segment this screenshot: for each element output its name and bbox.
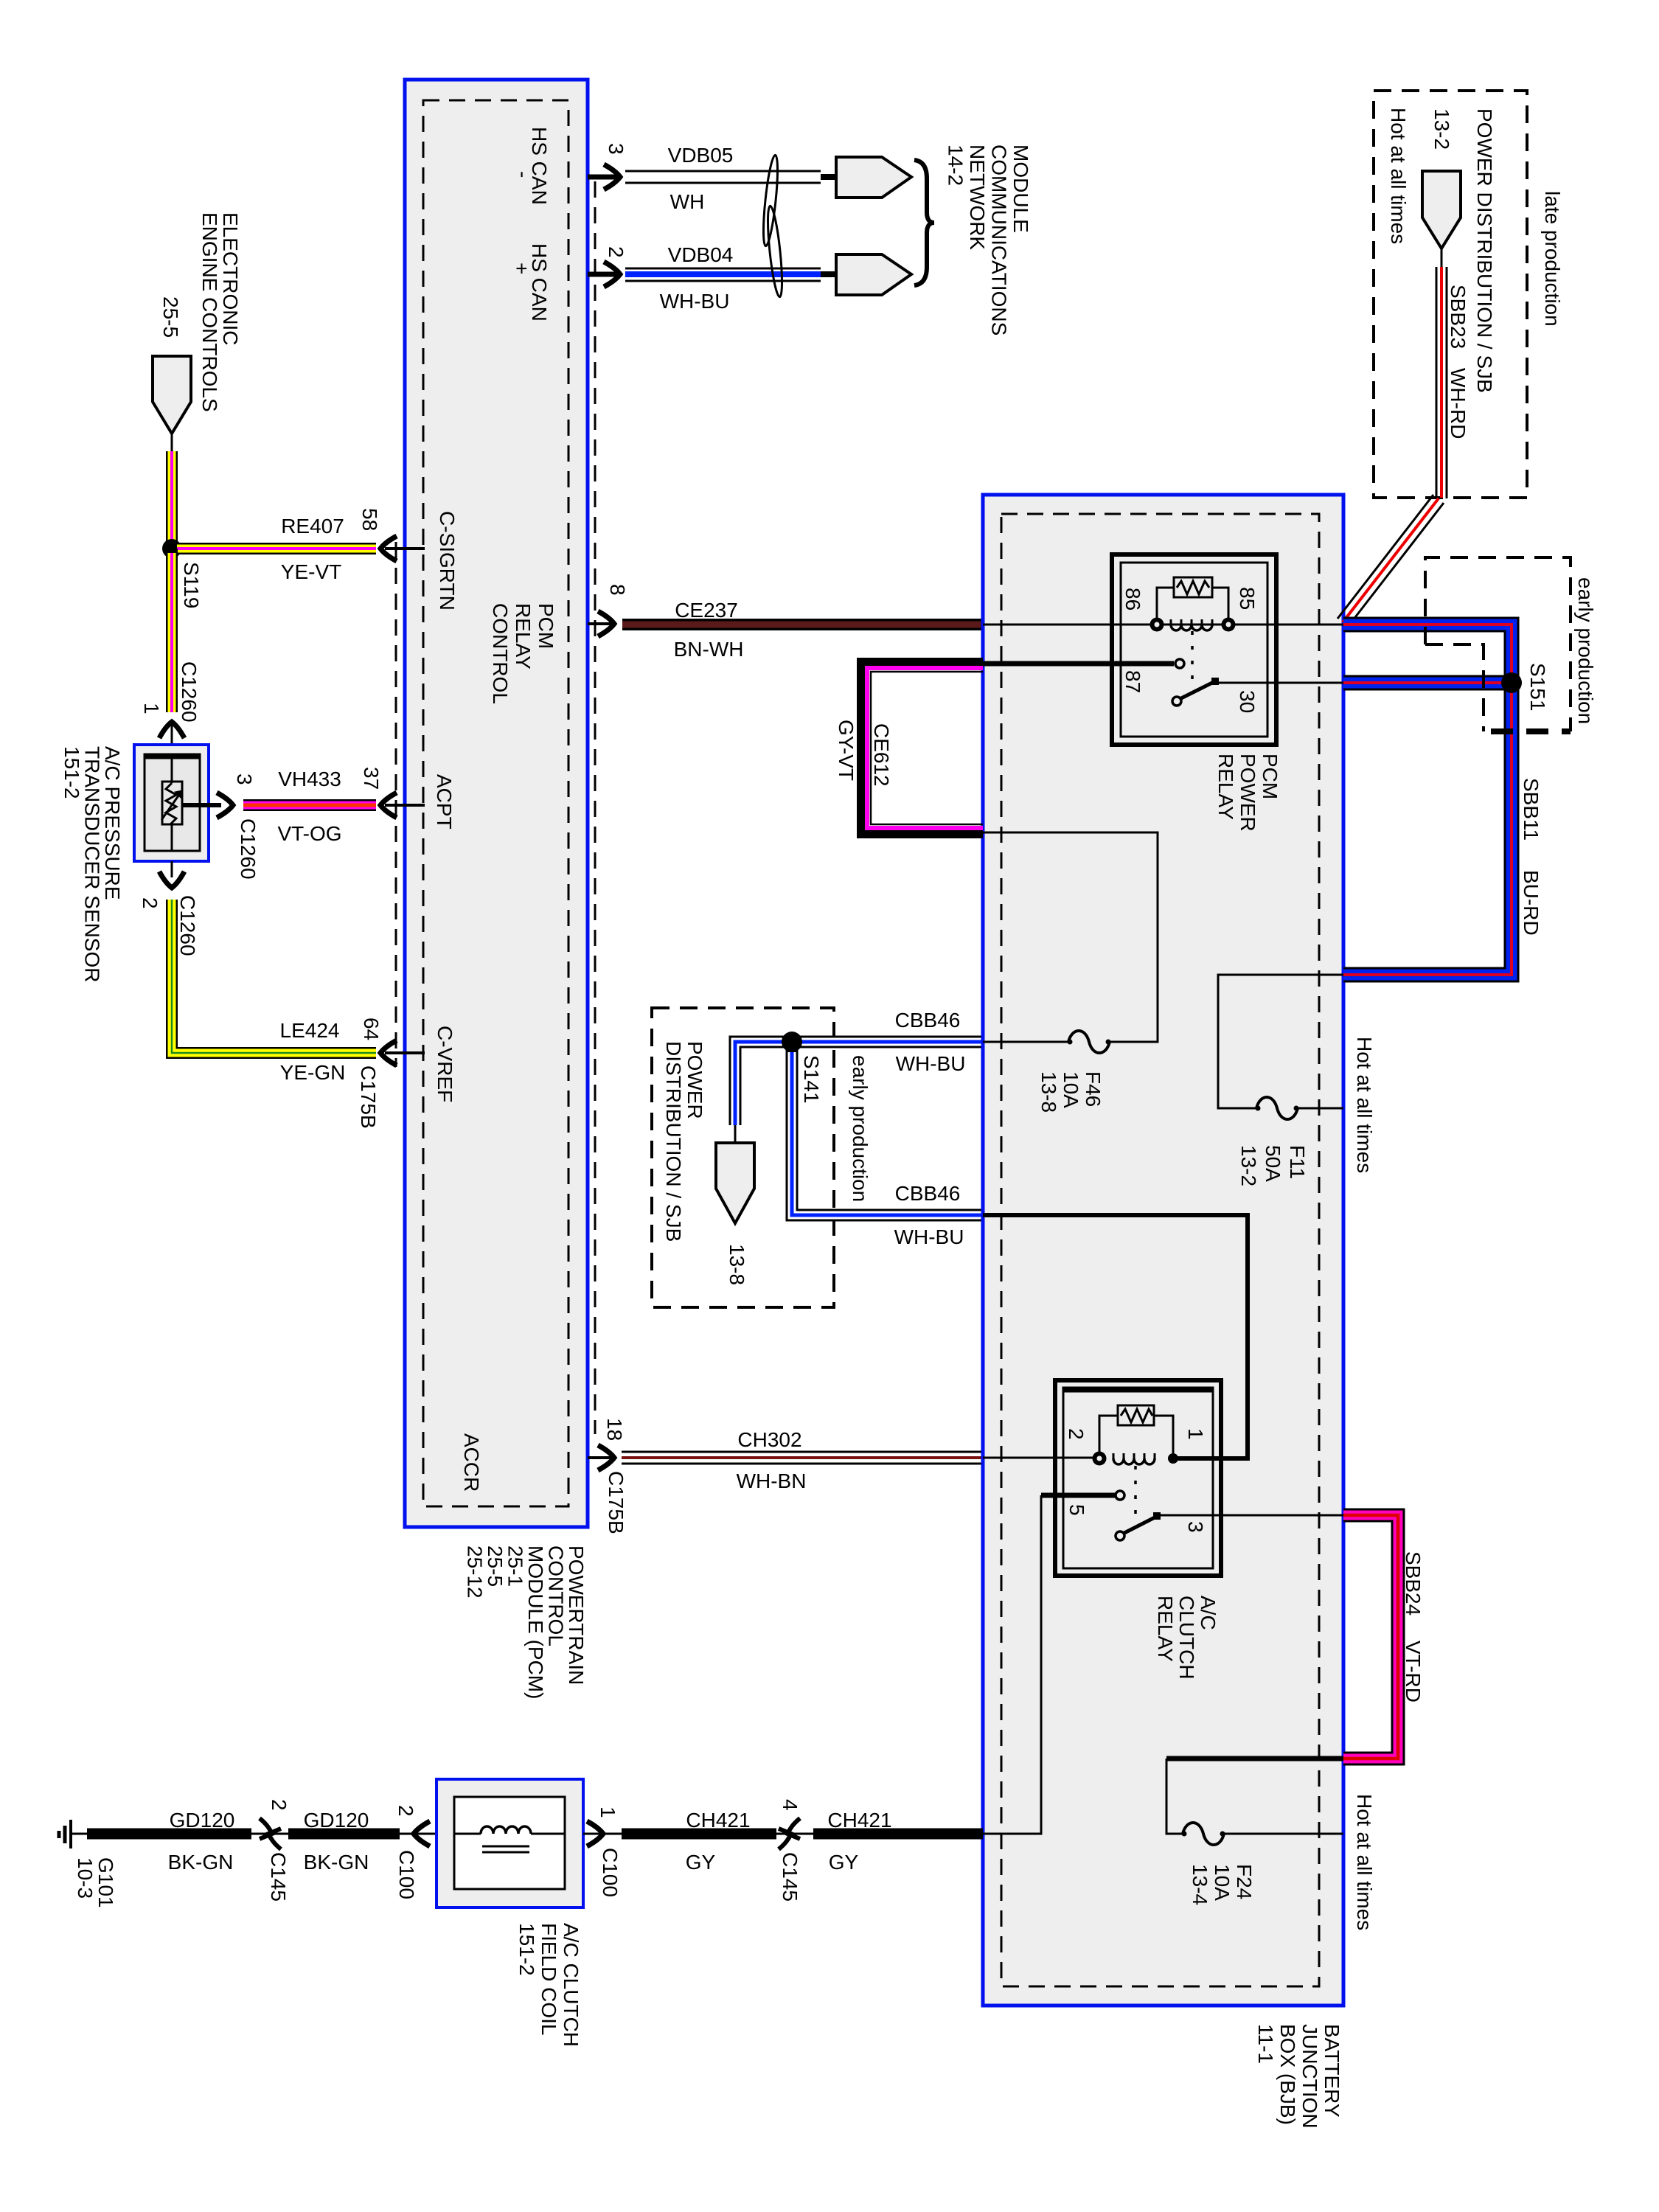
relay switch blade <box>1172 697 1181 706</box>
svg-text:2: 2 <box>1065 1428 1088 1440</box>
wire LE424 YE-GN vertical <box>172 900 376 1053</box>
BJB inner dashed boundary <box>1001 514 1319 1986</box>
svg-text:SBB23: SBB23 <box>1447 285 1470 349</box>
A/C pressure transducer sensor box <box>134 745 209 861</box>
connector 13-2 pentagon <box>1422 171 1461 248</box>
svg-text:VH433: VH433 <box>278 768 341 790</box>
wire CE612 GY-VT loop <box>861 662 983 834</box>
svg-text:GD120: GD120 <box>304 1809 369 1832</box>
brace <box>914 160 934 285</box>
wire S151 branch (BU-RD) <box>1343 675 1512 691</box>
pin 5 wire <box>1041 1493 1116 1498</box>
splice S119 <box>162 539 181 558</box>
wire VDB04 WH-BU twisted pair <box>625 268 821 270</box>
fuse F46 wire <box>983 832 1158 1042</box>
svg-text:F2410A13-4: F2410A13-4 <box>1189 1864 1256 1905</box>
svg-text:HS CAN: HS CAN <box>528 127 551 205</box>
svg-text:2: 2 <box>268 1799 291 1811</box>
svg-text:1: 1 <box>597 1806 619 1818</box>
pin 3 HS CAN- arrow <box>588 175 618 180</box>
svg-text:18: 18 <box>603 1418 626 1441</box>
svg-text:3: 3 <box>605 143 627 155</box>
fuse F24 <box>1183 1823 1224 1845</box>
svg-text:3: 3 <box>233 773 256 785</box>
svg-text:85: 85 <box>1236 587 1259 610</box>
svg-text:8: 8 <box>606 584 629 596</box>
svg-text:30: 30 <box>1236 690 1259 713</box>
svg-text:RE407: RE407 <box>281 515 344 538</box>
pin 58 arrow into PCM <box>380 536 397 561</box>
svg-text:LE424: LE424 <box>280 1019 340 1042</box>
off-page connector (VDB04) <box>821 271 838 277</box>
svg-text:WH-BN: WH-BN <box>737 1470 807 1492</box>
relay resistor <box>1118 1405 1154 1425</box>
connector ELECTRONIC ENGINE CONTROLS 25-5 <box>153 356 191 434</box>
A/C clutch relay box <box>1055 1380 1221 1576</box>
pin 18 ACCR arrow <box>588 1456 612 1459</box>
wire GD120 BK-GN segment 2 <box>288 1829 400 1840</box>
svg-text:CBB46: CBB46 <box>895 1182 961 1205</box>
svg-text:late production: late production <box>1541 191 1564 327</box>
pin 8 PCM relay control arrow <box>588 622 612 625</box>
svg-text:86: 86 <box>1121 588 1144 611</box>
POWER DISTRIBUTION / SJB dashed box (center) <box>652 1008 834 1307</box>
wire S119 to sensor pin 1 (YE-VT) <box>166 549 178 712</box>
sensor pin 2 arrow <box>171 861 173 877</box>
splice S141 <box>782 1032 802 1052</box>
relay coil <box>1113 1458 1155 1464</box>
connector 13-8 pentagon <box>716 1143 754 1223</box>
svg-text:VT-OG: VT-OG <box>277 822 341 845</box>
pin 87 wire <box>983 661 1174 667</box>
svg-text:BU-RD: BU-RD <box>1520 870 1543 936</box>
svg-text:2: 2 <box>394 1805 417 1817</box>
wire VH433 VT-OG <box>243 799 376 811</box>
svg-text:VDB05: VDB05 <box>668 144 734 167</box>
svg-text:HS CAN: HS CAN <box>528 243 551 321</box>
svg-text:C-SIGRTN: C-SIGRTN <box>436 511 459 611</box>
svg-text:13-8: 13-8 <box>726 1244 748 1285</box>
battery junction box BJB <box>983 495 1343 2006</box>
svg-text:WH-RD: WH-RD <box>1447 368 1470 439</box>
sensor element symbol <box>162 782 182 824</box>
svg-text:13-2: 13-2 <box>1430 108 1453 150</box>
wire CH421 GY segment 2 <box>813 1829 983 1840</box>
svg-text:1: 1 <box>1184 1428 1207 1440</box>
PCM inner dashed connector boundary <box>423 100 568 1506</box>
wire CBB46 to A/C clutch relay pin 1 <box>983 1215 1248 1458</box>
wire SBB11 BU-RD loop <box>1343 625 1512 975</box>
svg-text:C145: C145 <box>267 1852 290 1902</box>
svg-text:C175B: C175B <box>357 1065 380 1129</box>
svg-text:C100: C100 <box>599 1848 622 1897</box>
svg-text:YE-VT: YE-VT <box>281 560 341 583</box>
svg-text:CBB46: CBB46 <box>895 1009 961 1032</box>
svg-text:S151: S151 <box>1526 663 1549 711</box>
splice S151 <box>1501 672 1522 693</box>
svg-text:YE-GN: YE-GN <box>280 1061 346 1084</box>
relay coil <box>1171 625 1212 630</box>
svg-text:58: 58 <box>358 508 381 531</box>
svg-text:2: 2 <box>139 897 161 909</box>
svg-text:C175B: C175B <box>605 1471 627 1534</box>
pin 64 arrow into PCM <box>380 1040 397 1065</box>
svg-text:WH-BU: WH-BU <box>896 1052 966 1075</box>
wire CBB46 WH-BU upper <box>792 1036 983 1048</box>
connector C100 arrow <box>400 1833 454 1835</box>
svg-text:ACCR: ACCR <box>460 1433 483 1492</box>
svg-text:early production: early production <box>1574 577 1597 724</box>
svg-text:3: 3 <box>1184 1521 1207 1533</box>
early production dashed box <box>1425 557 1571 731</box>
wire pin5 to CH421 <box>983 1495 1041 1834</box>
svg-text:GY-VT: GY-VT <box>835 720 858 781</box>
svg-text:CH302: CH302 <box>737 1428 801 1451</box>
svg-text:BK-GN: BK-GN <box>168 1851 234 1874</box>
PCM power relay box <box>1112 554 1276 745</box>
wire EEC to S119 (YE-VT) <box>171 434 173 451</box>
svg-text:C1260: C1260 <box>178 661 201 723</box>
svg-text:C1260: C1260 <box>176 895 199 956</box>
connector C100 arrow (coil side) <box>583 1833 622 1835</box>
wire SBB24 VT-RD loop <box>1343 1515 1398 1759</box>
connector plane dashed line C175E (left of PCM) <box>395 542 397 1067</box>
svg-text:S141: S141 <box>800 1055 823 1103</box>
POWER DISTRIBUTION / SJB dashed box (late production, top right) <box>1374 91 1527 498</box>
sensor pin 3 stub and arrow <box>182 803 221 807</box>
svg-text:WH-BU: WH-BU <box>894 1225 964 1248</box>
pin 2 wire (CH302) <box>983 1457 1095 1459</box>
pin 2 HS CAN+ arrow <box>588 272 618 277</box>
wire SBB23 WH-RD <box>1441 248 1443 267</box>
svg-text:F4610A13-8: F4610A13-8 <box>1037 1071 1105 1113</box>
wire coil feed (CE237 to SBB23/SBB11 node) <box>983 624 1343 626</box>
wire VDB05 WH twisted pair <box>625 170 821 173</box>
wire GD120 BK-GN segment 1 <box>87 1829 251 1840</box>
svg-text:Hot at all times: Hot at all times <box>1387 108 1410 244</box>
svg-text:VT-RD: VT-RD <box>1402 1641 1425 1703</box>
svg-text:WH-BU: WH-BU <box>660 290 730 313</box>
twisted pair symbol <box>761 155 781 247</box>
svg-text:2: 2 <box>605 246 627 258</box>
pin 37 arrow into PCM <box>380 793 397 818</box>
off-page connector (VDB05) <box>821 174 838 180</box>
wire CE237 BN-WH <box>622 619 983 630</box>
relay armature dashed <box>1191 631 1194 680</box>
svg-text:SBB11: SBB11 <box>1520 778 1543 841</box>
svg-text:GY: GY <box>829 1851 859 1874</box>
wire CH421 GY segment 1 <box>622 1829 776 1840</box>
svg-text:early production: early production <box>849 1055 872 1202</box>
svg-text:S119: S119 <box>180 562 203 608</box>
svg-text:BN-WH: BN-WH <box>674 638 744 661</box>
svg-text:Hot at all times: Hot at all times <box>1353 1037 1376 1173</box>
svg-text:C1260: C1260 <box>237 818 260 880</box>
wire CBB46 WH-BU lower <box>792 1042 983 1215</box>
wire SJB to S141 (WH-BU) <box>735 1042 792 1125</box>
svg-text:POWER DISTRIBUTION / SJB: POWER DISTRIBUTION / SJB <box>1473 108 1496 393</box>
svg-text:CH421: CH421 <box>686 1809 750 1832</box>
svg-text:CE612: CE612 <box>870 723 893 787</box>
pin 3 wire <box>1158 1514 1343 1517</box>
svg-text:-: - <box>512 171 535 178</box>
pin 1 arrow (sensor) <box>159 722 184 738</box>
svg-text:ACPT: ACPT <box>433 774 456 829</box>
wire CH302 WH-BN <box>622 1452 983 1464</box>
svg-text:64: 64 <box>360 1018 383 1040</box>
relay armature dashed <box>1134 1466 1137 1514</box>
svg-text:37: 37 <box>360 767 383 790</box>
fuse F11 wire <box>1218 975 1343 1108</box>
svg-text:+: + <box>510 262 533 274</box>
pin 30 wire <box>1215 682 1343 684</box>
svg-text:WH: WH <box>670 190 705 213</box>
wire RE407 YE-VT <box>177 543 376 554</box>
fuse F46 <box>1068 1031 1110 1053</box>
A/C clutch field coil box <box>437 1779 583 1907</box>
connector C145 (inline, right) <box>776 1833 813 1835</box>
svg-text:GD120: GD120 <box>170 1809 235 1832</box>
svg-text:GY: GY <box>686 1851 716 1874</box>
svg-text:VDB04: VDB04 <box>668 243 734 266</box>
ground G101 <box>69 1820 72 1848</box>
svg-text:C-VREF: C-VREF <box>434 1026 456 1102</box>
relay switch blade <box>1116 1531 1124 1540</box>
svg-text:Hot at all times: Hot at all times <box>1353 1794 1376 1930</box>
PCM module box <box>405 80 588 1527</box>
svg-text:25-5: 25-5 <box>159 296 182 338</box>
fuse F24 wire <box>1166 1756 1343 1761</box>
svg-text:CH421: CH421 <box>827 1809 891 1832</box>
svg-text:SBB24: SBB24 <box>1402 1551 1425 1615</box>
svg-text:4: 4 <box>779 1799 801 1811</box>
relay resistor <box>1174 577 1212 597</box>
svg-text:BK-GN: BK-GN <box>304 1851 369 1874</box>
svg-text:1: 1 <box>140 703 163 714</box>
svg-text:5: 5 <box>1065 1504 1088 1516</box>
connector plane dashed line (right of PCM) <box>594 181 597 1434</box>
svg-text:87: 87 <box>1121 670 1144 693</box>
field coil symbol <box>454 1833 481 1835</box>
svg-text:C100: C100 <box>395 1850 418 1899</box>
fuse F11 <box>1256 1097 1298 1119</box>
svg-text:C145: C145 <box>779 1852 801 1902</box>
connector C145 (inline) <box>251 1833 288 1835</box>
svg-text:CE237: CE237 <box>675 599 738 622</box>
